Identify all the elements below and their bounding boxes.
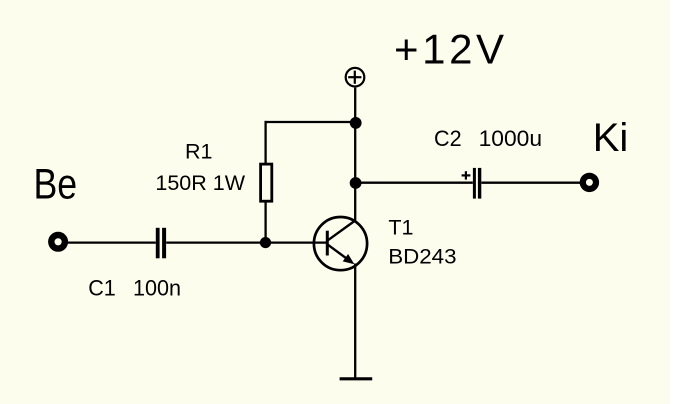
svg-text:T1: T1 [388, 216, 413, 240]
svg-text:Ki: Ki [593, 116, 629, 160]
svg-text:BD243: BD243 [388, 244, 456, 269]
svg-text:C2: C2 [434, 125, 462, 151]
svg-text:C1: C1 [88, 275, 116, 301]
svg-text:Be: Be [34, 161, 78, 209]
svg-text:150R 1W: 150R 1W [155, 171, 245, 195]
svg-text:+12V: +12V [394, 25, 508, 72]
svg-text:R1: R1 [185, 140, 212, 164]
svg-text:1000u: 1000u [479, 125, 542, 151]
svg-text:100n: 100n [133, 275, 181, 301]
